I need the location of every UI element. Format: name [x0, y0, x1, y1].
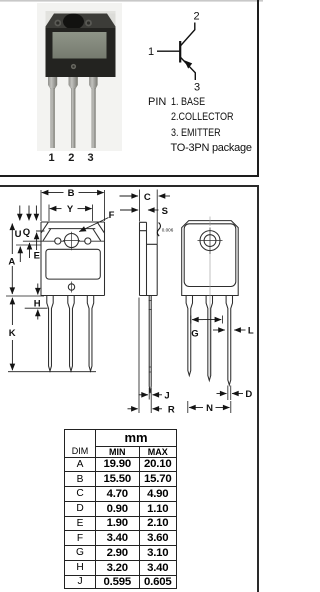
- dim L arrows: [213, 329, 225, 331]
- front view label recess: [46, 249, 100, 279]
- svg-text:J: J: [164, 390, 169, 401]
- svg-text:L: L: [248, 325, 254, 336]
- emitter wire pin3: [180, 57, 195, 80]
- dim R arrows: [128, 408, 138, 410]
- side view outline: [140, 222, 158, 295]
- emitter arrow (PNP, pointing to base): [184, 60, 192, 68]
- frame: top section right border: [257, 0, 259, 176]
- dim Y extension lines: [49, 205, 93, 222]
- dim S arrows: [120, 209, 138, 211]
- back view leg 1: [186, 296, 192, 376]
- row D: [65, 501, 177, 516]
- frame: top section bottom border: [0, 175, 259, 177]
- dim N arrows: [189, 407, 203, 409]
- dim A bottom ext line: [6, 295, 44, 297]
- front view leg 1: [47, 296, 53, 372]
- front view tab inner line: [36, 229, 95, 231]
- package name: [171, 142, 252, 154]
- front view corner chamfer left: [41, 222, 51, 241]
- dim N ticks: [188, 401, 231, 413]
- back view body outline: [182, 221, 239, 296]
- dim H ext line: [25, 307, 48, 309]
- transistor photo (TO-3PN package): [0, 0, 263, 176]
- front view small hole left: [55, 238, 61, 244]
- pin 1 name: [148, 96, 166, 108]
- body dimple: [71, 64, 76, 69]
- leg 2: [69, 77, 78, 89]
- back view center line: [209, 217, 211, 379]
- front view mounting hole F: [65, 234, 79, 248]
- dim U lower arrow: [19, 247, 21, 262]
- dim D arrows: [217, 393, 227, 395]
- tab corner highlight left: [46, 14, 55, 27]
- dim G arrows: [192, 319, 203, 321]
- svg-text:Q: Q: [23, 227, 30, 238]
- dim C arrows: [120, 195, 139, 197]
- back view hole inner: [204, 235, 216, 247]
- front view leg 3: [87, 296, 93, 372]
- leg 1: [48, 77, 57, 89]
- dimension table: [64, 429, 177, 589]
- dim J arrows: [139, 394, 148, 396]
- dim K bottom ext line (leg tips): [8, 371, 96, 373]
- dim B arrow: [42, 192, 64, 194]
- dim A arrow: [11, 224, 13, 255]
- front view body outline: [41, 222, 105, 296]
- row J: [65, 575, 177, 588]
- tab screw dot left: [54, 20, 61, 27]
- back view leg 2: [206, 296, 212, 381]
- package metal tab: [46, 14, 116, 30]
- pin description text: [0, 0, 1, 1]
- package metal tab top edge: [46, 11, 116, 15]
- body label area: [53, 32, 107, 59]
- row A: [65, 457, 177, 472]
- back view tab outline: [184, 224, 236, 287]
- svg-text:N: N: [206, 403, 213, 414]
- front view leg 2: [68, 296, 74, 372]
- dim J ext lines: [149, 388, 151, 400]
- tab mounting hole: [63, 14, 84, 30]
- svg-text:E: E: [34, 250, 40, 261]
- svg-text:F: F: [109, 210, 115, 221]
- dim F leader arrow: [79, 218, 108, 232]
- front view tab bottom line: [23, 240, 105, 242]
- side view leg: [149, 296, 151, 394]
- pin 2 name: [171, 111, 233, 123]
- plastic body: [46, 28, 116, 77]
- back view hole outer: [200, 231, 220, 251]
- row C: [65, 487, 177, 502]
- base wire pin1: [157, 50, 180, 52]
- dim E lower arrow: [36, 233, 38, 250]
- svg-text:B: B: [68, 188, 75, 199]
- pin 3 name: [171, 127, 221, 139]
- dim K arrow: [11, 298, 13, 325]
- dim D ext lines: [228, 386, 231, 401]
- svg-text:A: A: [8, 257, 15, 268]
- frame: bottom section right border: [257, 185, 259, 592]
- dim C ext lines: [140, 190, 158, 245]
- svg-text:S: S: [162, 206, 168, 217]
- svg-text:C: C: [144, 192, 151, 203]
- dim H arrows: [37, 284, 39, 295]
- front view small hole right: [85, 238, 91, 244]
- svg-text:2: 2: [193, 11, 199, 23]
- svg-text:1: 1: [148, 46, 154, 58]
- svg-text:D: D: [245, 389, 252, 400]
- front view bottom dimple: [68, 284, 74, 290]
- row G: [65, 546, 177, 561]
- frame: bottom section top border: [0, 185, 259, 187]
- base bar: [179, 41, 181, 63]
- photo backdrop: [37, 3, 122, 151]
- tab screw dot right: [85, 20, 92, 27]
- row B: [65, 472, 177, 487]
- flatness squiggle: [157, 223, 160, 237]
- dim Y arrow: [50, 208, 62, 210]
- dim U/Q/E upper arrows: [19, 206, 21, 221]
- svg-text:0.006: 0.006: [162, 227, 174, 232]
- back view hole crosshair: [198, 228, 223, 255]
- dim R ext line: [139, 298, 151, 414]
- collector wire pin2: [180, 23, 195, 47]
- transistor symbol Q1 (PNP): [0, 0, 263, 176]
- side view leg bend marks: [149, 301, 152, 373]
- svg-text:H: H: [34, 299, 41, 310]
- svg-text:3: 3: [194, 82, 200, 94]
- leg 3: [89, 77, 98, 89]
- row F: [65, 531, 177, 546]
- back view leg 3: [226, 296, 232, 386]
- front view U ref line: [16, 244, 41, 246]
- package outline drawing: [0, 187, 257, 429]
- top gray rule: [0, 0, 263, 2]
- front view corner chamfer right: [93, 222, 105, 241]
- tab corner highlight right: [107, 14, 116, 27]
- svg-text:U: U: [15, 229, 22, 240]
- dim B extension lines: [41, 190, 105, 221]
- row H: [65, 560, 177, 575]
- svg-text:G: G: [191, 329, 198, 340]
- svg-text:K: K: [9, 328, 16, 339]
- dim Q lower arrow: [29, 243, 31, 258]
- dim G ticks: [191, 316, 223, 324]
- svg-text:R: R: [168, 404, 175, 415]
- svg-text:Y: Y: [67, 204, 74, 215]
- row E: [65, 516, 177, 531]
